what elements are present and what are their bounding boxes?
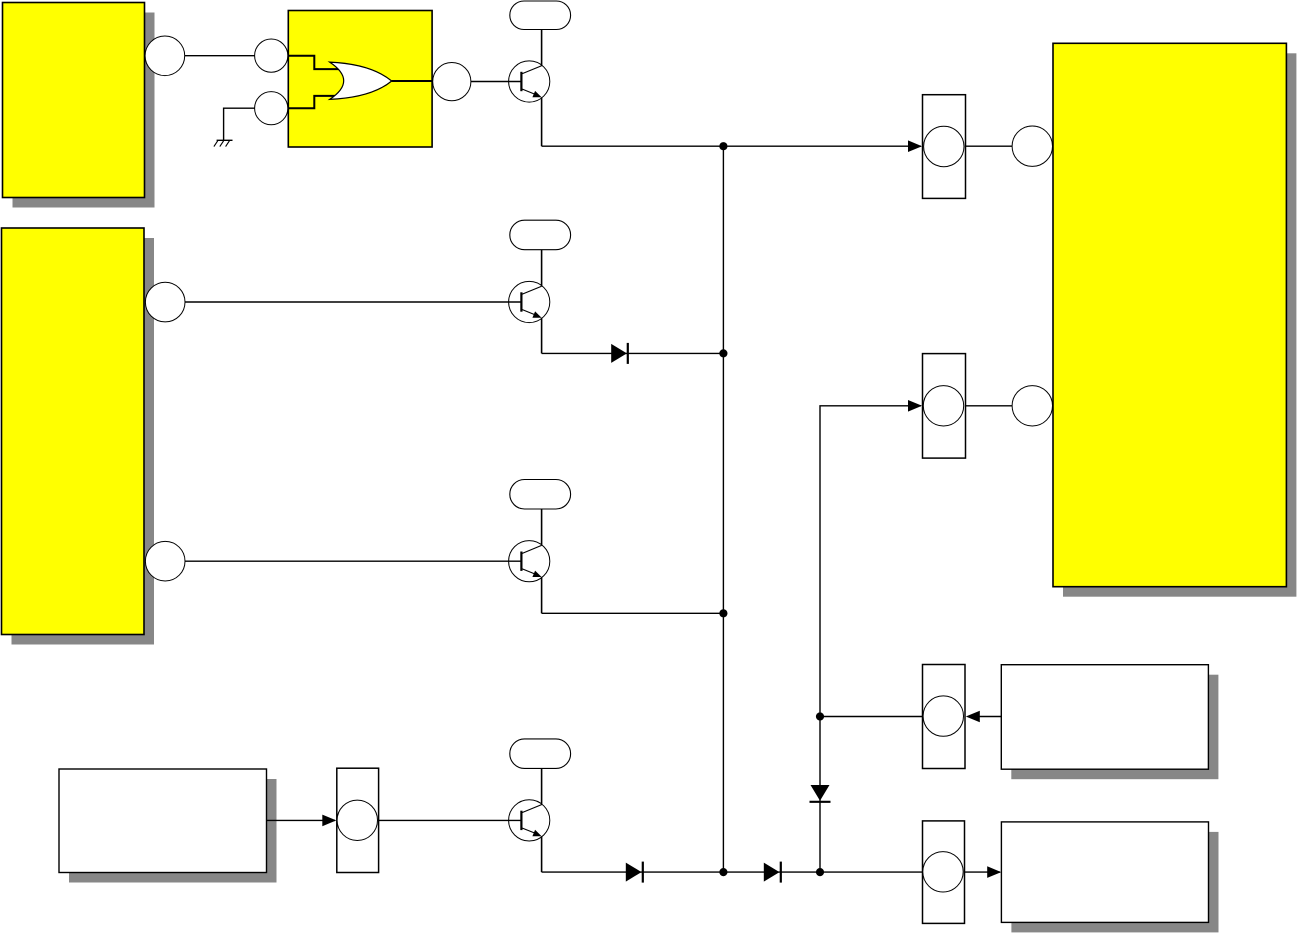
wire P4 to T4 base xyxy=(379,819,522,821)
stadium S3 xyxy=(510,480,571,546)
junction dots xyxy=(719,142,727,150)
wire T2 emitter to bus with diode xyxy=(542,352,724,354)
main bus wire (vertical) xyxy=(722,146,724,872)
diode D1 xyxy=(611,343,628,364)
OR gate output wire xyxy=(392,80,433,82)
ground xyxy=(214,140,233,146)
port circle on block A xyxy=(145,36,185,76)
wire C port2 to T3 base xyxy=(185,560,522,562)
wire bus2 to P3 xyxy=(820,716,923,718)
block A (yellow subsystem, top-left) xyxy=(3,3,155,208)
wire C port1 to T2 base xyxy=(185,301,522,303)
OR gate U1 xyxy=(330,62,392,99)
OR gate input step 2 xyxy=(288,96,337,108)
transistor T2 xyxy=(509,281,550,353)
wire P1 to B port 1 xyxy=(966,145,1013,147)
port adapter P3 xyxy=(923,665,966,769)
OR output circle xyxy=(433,63,471,101)
secondary bus wire (vertical) xyxy=(820,406,921,872)
OR-gate block (yellow, no shadow) xyxy=(288,11,432,148)
wire A to OR input 1 xyxy=(185,55,255,57)
arrow into P4 xyxy=(322,815,336,827)
stadium S1 xyxy=(510,1,571,66)
wire T3 emitter to bus xyxy=(542,612,724,614)
arrow into P3 (pointing left) xyxy=(966,711,980,723)
diode D4 xyxy=(626,862,643,883)
port circle on B (lower) xyxy=(1012,386,1052,426)
stadium S2 xyxy=(510,220,571,286)
arrow into P1 xyxy=(908,140,922,152)
transistor T3 xyxy=(509,541,550,614)
port circle on C (lower) xyxy=(145,541,185,581)
arrow into E xyxy=(987,866,1001,878)
block F (white box, mid-right) xyxy=(1001,665,1218,780)
wire F to P3 with left arrow xyxy=(979,716,1001,718)
stadium S4 xyxy=(510,739,571,805)
OR input circle 2 xyxy=(255,92,288,125)
OR input circle 1 xyxy=(255,39,288,72)
port circle on C (upper) xyxy=(145,282,185,322)
wire P5 to E with arrow xyxy=(965,871,1001,873)
diode D5 xyxy=(764,862,781,883)
port adapter P1 xyxy=(923,95,966,199)
port circle on B (upper) xyxy=(1012,126,1052,166)
port adapter P4 xyxy=(337,768,379,872)
wire T1 emitter to P1 xyxy=(542,145,921,147)
transistor T4 xyxy=(509,800,550,872)
block E (white box, bottom-right) xyxy=(1001,822,1218,933)
arrow into P2 xyxy=(908,400,922,412)
wire OR output to T1 base xyxy=(471,81,522,83)
port adapter P5 xyxy=(923,821,965,924)
block B (yellow subsystem, right) xyxy=(1053,43,1296,596)
block C (yellow subsystem, mid-left) xyxy=(2,228,155,645)
port adapter P2 xyxy=(923,354,966,459)
diode D6 (pointing down) xyxy=(810,785,831,802)
OR gate input step 1 xyxy=(288,56,339,69)
transistor T1 xyxy=(509,61,550,146)
wire OR input 2 to ground xyxy=(224,108,255,140)
wire D to P4 xyxy=(267,819,336,821)
block D (white box, bottom-left) xyxy=(59,769,277,883)
wire P2 to B port 2 xyxy=(966,405,1013,407)
bottom wire T4 emitter to P5 xyxy=(542,871,923,873)
